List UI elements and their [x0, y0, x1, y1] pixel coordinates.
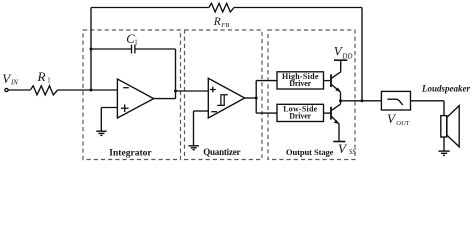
svg-text:R: R	[37, 69, 46, 84]
svg-text:FB: FB	[220, 22, 229, 29]
svg-text:IN: IN	[10, 80, 18, 87]
svg-text:Driver: Driver	[289, 79, 311, 88]
svg-text:Quantizer: Quantizer	[203, 147, 240, 157]
svg-text:Output Stage: Output Stage	[286, 147, 334, 157]
svg-text:1: 1	[47, 77, 50, 84]
svg-text:Driver: Driver	[289, 112, 311, 121]
svg-text:DD: DD	[341, 52, 352, 60]
svg-text:1: 1	[134, 39, 138, 47]
svg-text:Loudspeaker: Loudspeaker	[421, 84, 470, 94]
svg-text:SS: SS	[349, 148, 357, 156]
svg-text:Integrator: Integrator	[109, 149, 152, 159]
svg-text:OUT: OUT	[396, 120, 409, 127]
svg-text:R: R	[213, 16, 221, 28]
